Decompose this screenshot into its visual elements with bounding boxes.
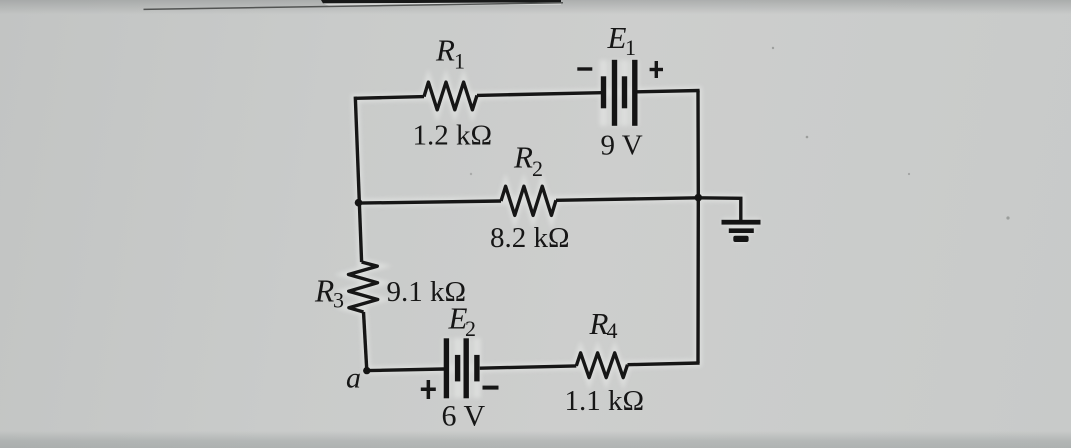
- svg-text:1.1 kΩ: 1.1 kΩ: [565, 385, 645, 417]
- label E2 plus: [421, 380, 436, 399]
- wire to ground: [698, 198, 741, 221]
- node a junction: [363, 367, 370, 374]
- label E1 minus: [577, 67, 592, 70]
- ground: [722, 220, 761, 242]
- resistor R4: [576, 353, 627, 378]
- label E2: [448, 301, 477, 341]
- svg-text:3: 3: [333, 287, 344, 312]
- svg-text:4: 4: [607, 318, 618, 343]
- label R2: [513, 140, 543, 182]
- svg-text:1.2 kΩ: 1.2 kΩ: [413, 119, 493, 151]
- battery E1: [601, 60, 638, 126]
- node right-middle junction: [695, 194, 703, 202]
- svg-text:1: 1: [454, 49, 465, 74]
- svg-text:9 V: 9 V: [601, 130, 643, 162]
- dust speck: [908, 173, 910, 175]
- svg-text:E: E: [448, 301, 468, 336]
- wire R1 to E1: [477, 93, 601, 96]
- wire right vertical: [696, 91, 700, 364]
- svg-text:E: E: [607, 20, 627, 55]
- label 9.1 kohm: [387, 276, 467, 308]
- label 6 V: [442, 400, 486, 433]
- label E1 plus: [650, 61, 663, 78]
- resistor R3: [349, 262, 378, 312]
- wire bottom left (node a to E2): [367, 369, 444, 371]
- wire middle right: [556, 198, 698, 201]
- label E2 minus: [483, 386, 499, 390]
- wire E2 to R4: [480, 366, 577, 368]
- wire top-left to R1: [355, 97, 424, 99]
- wire E1 to top-right corner: [638, 91, 700, 92]
- label 8.2 kohm: [490, 222, 570, 254]
- label E1: [607, 20, 637, 60]
- wire middle left: [358, 201, 501, 203]
- dust speck: [806, 136, 809, 139]
- wire left vertical upper: [355, 97, 361, 262]
- svg-text:2: 2: [465, 316, 476, 341]
- dust speck: [772, 47, 774, 49]
- photo sharpening halo under circuit: [349, 60, 761, 398]
- dust speck: [1006, 216, 1009, 219]
- label 1.2 kohm: [413, 119, 493, 151]
- svg-text:6 V: 6 V: [442, 400, 486, 433]
- wire left vertical lower: [364, 312, 367, 371]
- label R4: [589, 306, 618, 343]
- svg-text:a: a: [346, 362, 361, 395]
- label 1.1 kohm: [565, 385, 645, 417]
- svg-text:2: 2: [532, 156, 543, 181]
- battery E2: [444, 338, 480, 398]
- svg-text:R: R: [513, 140, 533, 175]
- label 9 V: [601, 130, 643, 162]
- node left-middle junction: [355, 199, 363, 207]
- svg-text:R: R: [589, 306, 609, 341]
- wire R4 to bottom-right corner: [628, 363, 700, 365]
- svg-text:1: 1: [625, 35, 636, 60]
- resistor R2: [501, 186, 556, 215]
- top screen-edge black bar: [321, 0, 561, 6]
- svg-text:R: R: [435, 33, 455, 68]
- svg-text:R: R: [314, 274, 334, 309]
- label R3: [314, 274, 344, 313]
- resistor R1: [424, 82, 477, 110]
- svg-text:8.2 kΩ: 8.2 kΩ: [490, 222, 570, 254]
- label R1: [435, 33, 465, 74]
- label node a: [346, 362, 361, 395]
- top screen-edge thin line: [144, 3, 564, 10]
- svg-text:9.1 kΩ: 9.1 kΩ: [387, 276, 467, 308]
- dust speck: [470, 173, 472, 175]
